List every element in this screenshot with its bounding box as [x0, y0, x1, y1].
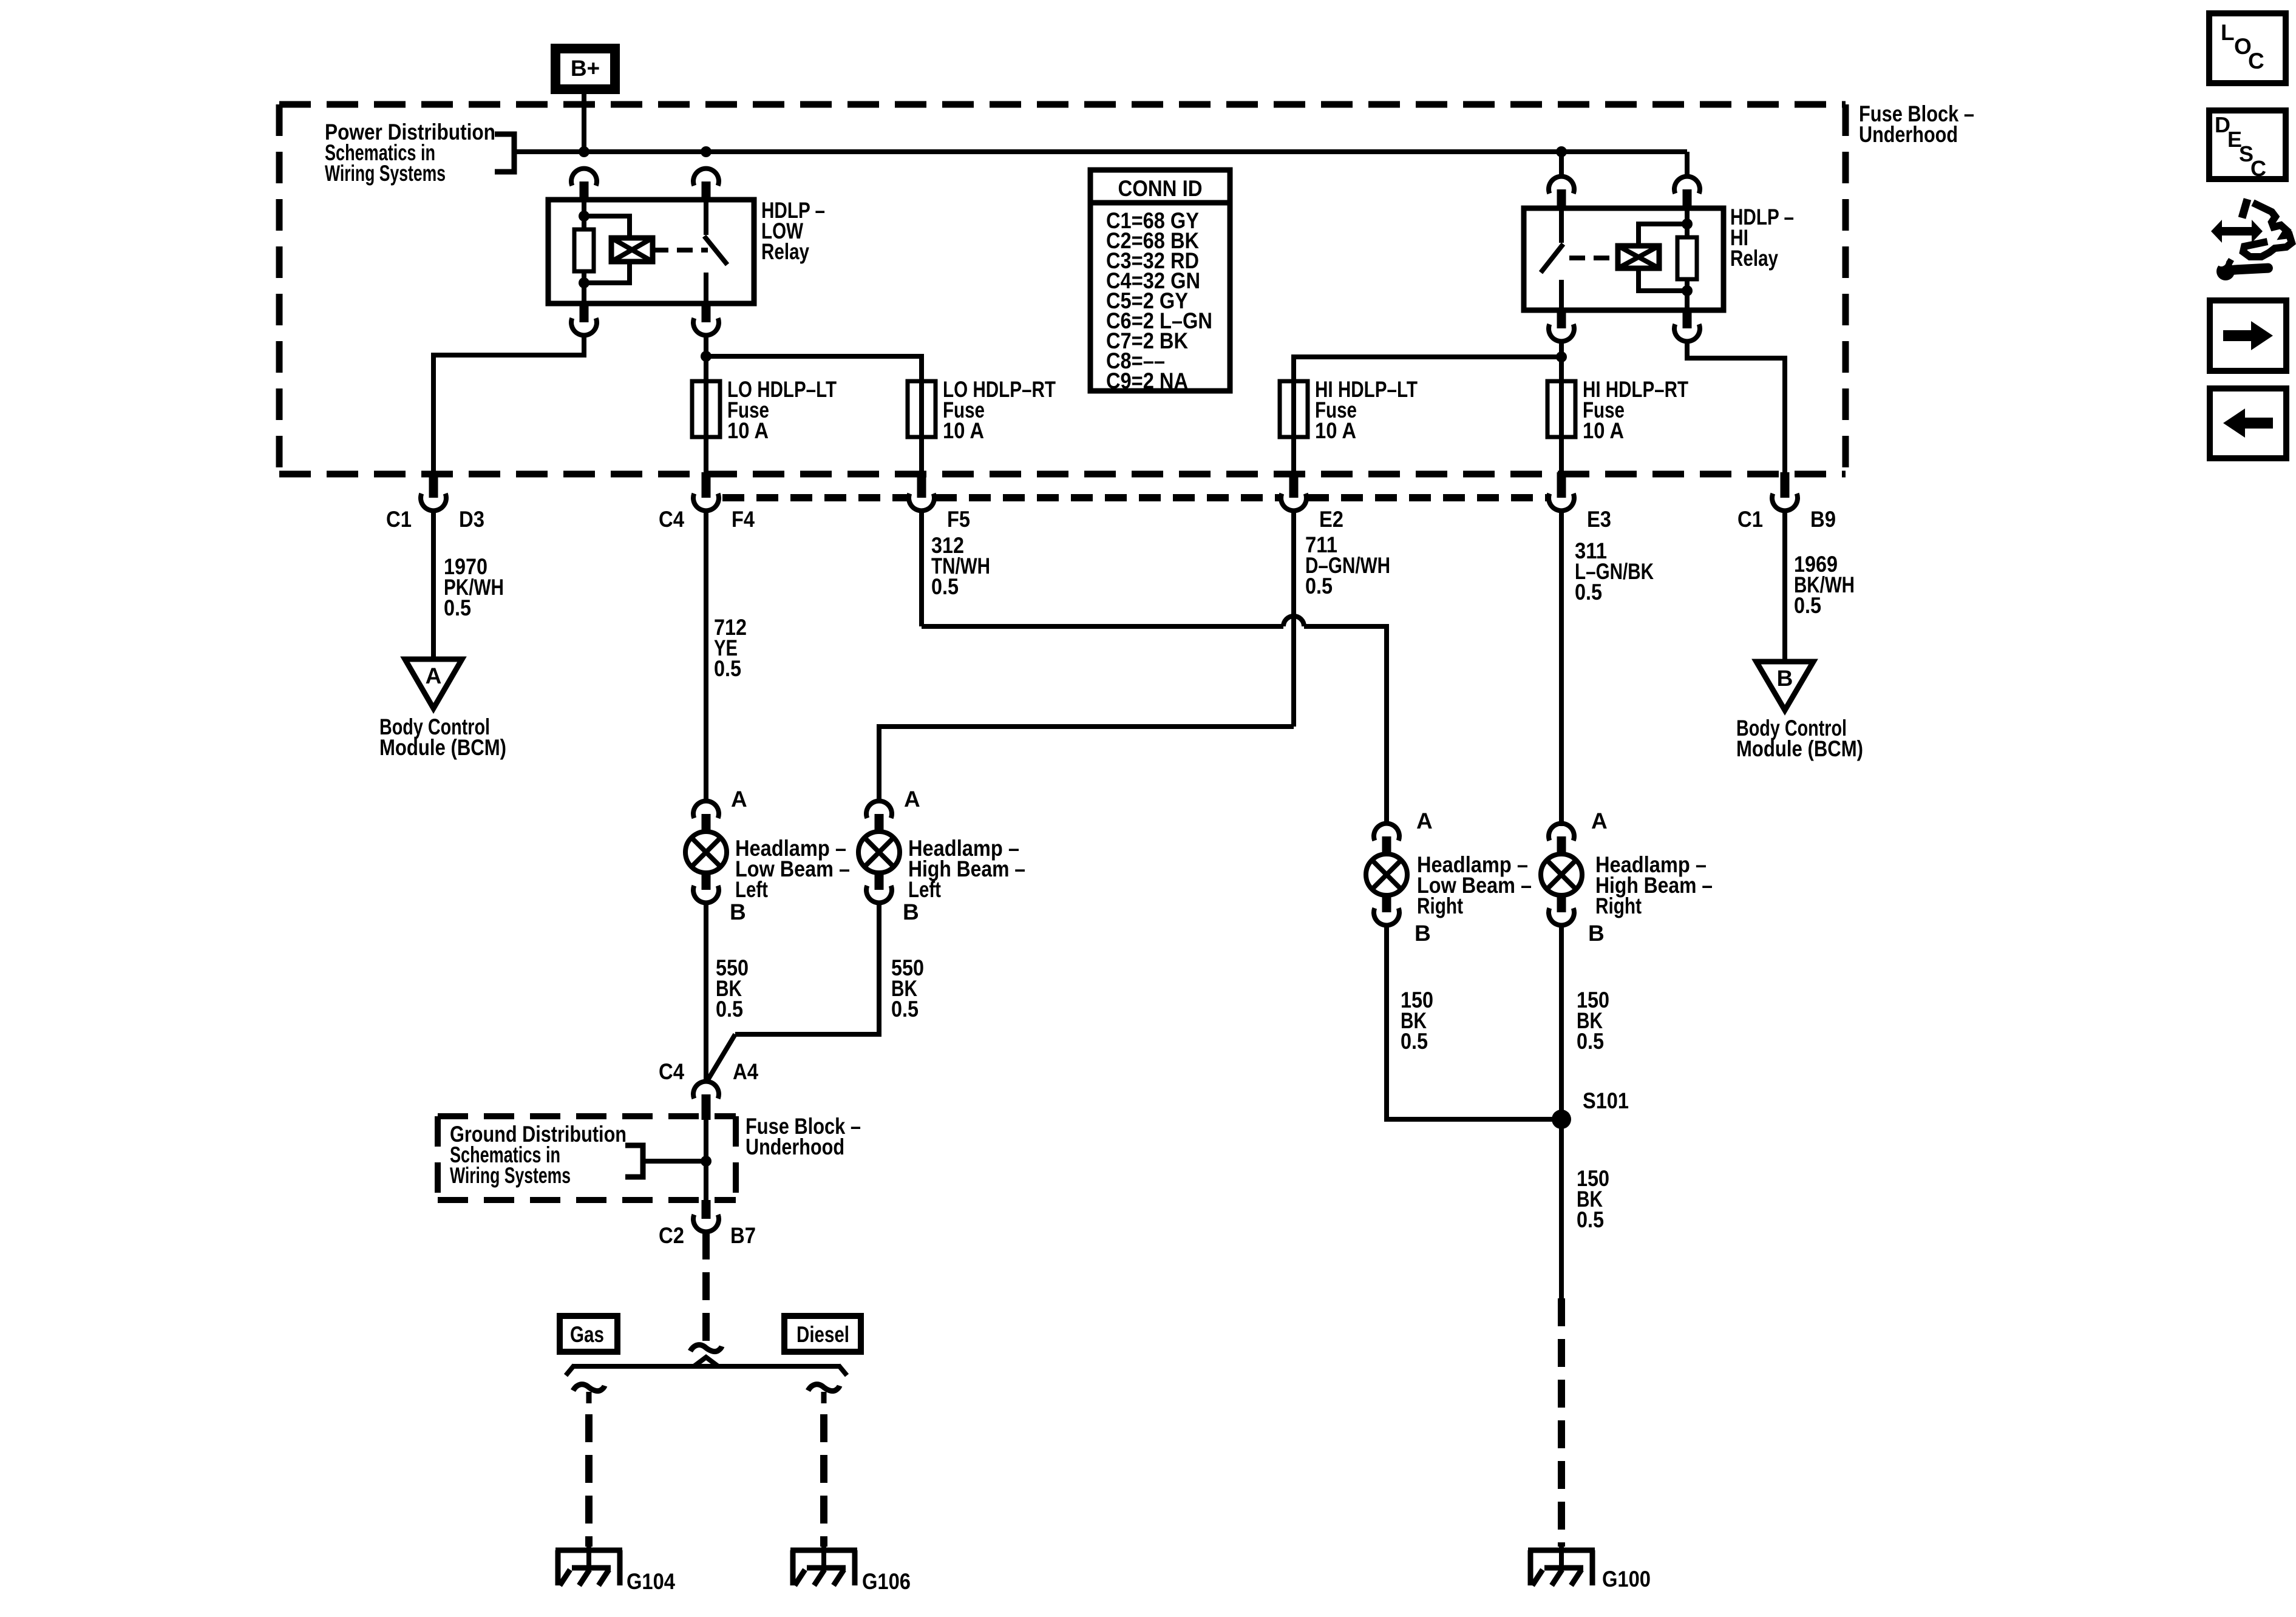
svg-text:B7: B7	[730, 1223, 756, 1248]
connector E3 at fuse block	[1557, 472, 1566, 498]
adjust/service icon (hand with wrench)	[2211, 220, 2263, 243]
wire to G104	[585, 1414, 593, 1547]
bracket to ground distribution	[625, 1145, 643, 1177]
wire HI switch to HI-RT fuse	[1559, 341, 1564, 381]
svg-text:Gas: Gas	[570, 1322, 604, 1347]
connector C1 D3 at fuse block	[429, 472, 438, 498]
svg-text:B9: B9	[1810, 507, 1836, 532]
next-page arrow box	[2210, 300, 2286, 371]
ground distribution fuse block dashed box	[438, 1113, 736, 1119]
svg-text:F5: F5	[947, 507, 970, 532]
wire 711 D-GN/WH 0.5	[1291, 510, 1296, 727]
node fuse feed junction HI	[1556, 351, 1567, 362]
fuse HI HDLP–RT 10 A	[1559, 381, 1564, 474]
svg-text:A: A	[1416, 808, 1433, 833]
svg-text:C9=2 NA: C9=2 NA	[1106, 368, 1188, 393]
lamp Headlamp Low Beam Left	[693, 801, 719, 818]
svg-text:10 A: 10 A	[1583, 418, 1624, 443]
split line gas/diesel	[694, 1357, 718, 1366]
connector E2 at fuse block	[1289, 472, 1299, 498]
wire 550 BK 0.5 low-left	[704, 903, 708, 1082]
actuator dashed link HI	[1569, 256, 1618, 260]
wire break symbol diesel branch	[808, 1385, 840, 1391]
svg-text:Wiring Systems: Wiring Systems	[325, 161, 446, 186]
wire LOW switch to LO-LT fuse	[704, 335, 708, 381]
svg-text:B: B	[1415, 921, 1431, 946]
svg-text:A: A	[904, 787, 920, 812]
svg-text:C: C	[2248, 49, 2264, 73]
svg-text:0.5: 0.5	[714, 656, 741, 681]
svg-text:Left: Left	[735, 877, 768, 902]
svg-text:C1: C1	[386, 507, 412, 532]
connector F5 at fuse block	[917, 472, 926, 498]
DESC nav box	[2209, 110, 2286, 179]
node bus/B+ junction	[579, 146, 589, 157]
wire to HI-LT fuse	[1294, 357, 1561, 381]
prev-page arrow box	[2210, 388, 2286, 458]
battery feed B+ box	[555, 49, 615, 89]
svg-text:0.5: 0.5	[444, 595, 471, 620]
svg-text:L: L	[2221, 20, 2235, 45]
wire 312 TN/WH 0.5	[919, 510, 924, 626]
fuse block underhood dashed box	[279, 101, 1846, 108]
svg-text:C4: C4	[659, 1059, 684, 1084]
wire 1969 BK/WH 0.5	[1782, 510, 1787, 662]
CONN ID table	[1090, 170, 1230, 391]
off-page triangle A to BCM	[405, 659, 462, 708]
svg-text:A: A	[1591, 808, 1608, 833]
actuator dashed link LOW	[653, 248, 708, 253]
svg-text:Module (BCM): Module (BCM)	[1736, 736, 1863, 761]
svg-text:0.5: 0.5	[1794, 593, 1821, 618]
wire coil loop bottom	[584, 262, 630, 283]
switch HI relay	[1559, 208, 1564, 243]
wire break symbol gas branch	[573, 1385, 605, 1391]
lamp Headlamp High Beam Left	[866, 801, 892, 818]
bracket to power distribution	[495, 134, 514, 172]
svg-text:0.5: 0.5	[1305, 574, 1333, 598]
lamp Headlamp High Beam Right	[1549, 824, 1574, 841]
wire B+ bus	[584, 149, 1687, 154]
svg-text:Relay: Relay	[1730, 246, 1778, 271]
connector HI relay coil pin top	[1674, 177, 1700, 194]
connector C4 A4	[693, 1082, 719, 1099]
svg-text:Right: Right	[1595, 893, 1642, 918]
connector C1 B9 at fuse block	[1781, 472, 1790, 498]
svg-text:G100: G100	[1602, 1567, 1651, 1592]
svg-text:Right: Right	[1417, 893, 1463, 918]
connector HI relay coil pin bottom	[1683, 310, 1692, 328]
node fuse feed junction LOW	[701, 351, 712, 362]
svg-text:C: C	[2250, 156, 2266, 181]
wire through ground dist box	[704, 1120, 708, 1200]
svg-text:C4: C4	[659, 507, 684, 532]
wire 1970 PK/WH 0.5	[431, 510, 436, 659]
svg-text:B: B	[1588, 921, 1605, 946]
fuse LO HDLP–LT 10 A	[704, 381, 708, 474]
svg-text:C2: C2	[659, 1223, 684, 1248]
wire B+ to bus	[582, 94, 586, 152]
relay HDLP-LOW box	[548, 200, 754, 303]
wire bus to HI relay switch pin	[1559, 152, 1564, 177]
svg-text:C1: C1	[1737, 507, 1763, 532]
svg-text:0.5: 0.5	[931, 574, 959, 599]
wire 150 BK 0.5 high-right	[1559, 925, 1564, 1298]
svg-text:10 A: 10 A	[727, 418, 769, 443]
connector C4 F4 at fuse block	[702, 472, 711, 498]
svg-text:Left: Left	[908, 877, 941, 902]
svg-text:B: B	[1777, 666, 1793, 691]
resistor HI relay	[1677, 237, 1697, 279]
svg-text:Wiring Systems: Wiring Systems	[450, 1163, 571, 1188]
fuse LO HDLP–RT 10 A	[919, 381, 924, 474]
wire bus corner to HI relay coil pin	[1685, 152, 1690, 177]
svg-text:Module (BCM): Module (BCM)	[379, 735, 506, 760]
connector C2 B7	[702, 1200, 711, 1219]
wire HI coil to B9	[1687, 341, 1785, 474]
wire to LO-RT fuse	[706, 356, 922, 381]
wire to G106	[820, 1414, 827, 1547]
wire coil loop top	[584, 216, 630, 238]
svg-text:D3: D3	[459, 507, 484, 532]
node ground dist junction	[701, 1156, 712, 1167]
svg-text:0.5: 0.5	[1577, 1029, 1604, 1054]
wire hop over 711 wire	[1283, 616, 1304, 626]
coil winding HI relay	[1618, 246, 1659, 268]
ground G100	[1559, 1543, 1564, 1569]
svg-text:0.5: 0.5	[1401, 1029, 1428, 1054]
coil winding LOW relay	[611, 238, 653, 262]
wire LOW coil to D3	[433, 335, 584, 474]
svg-text:B: B	[903, 900, 919, 924]
ground G104	[586, 1543, 591, 1569]
Diesel box	[784, 1316, 861, 1352]
splice S101	[1552, 1110, 1571, 1129]
connector LOW relay coil pin bottom	[580, 303, 589, 322]
svg-text:B+: B+	[571, 56, 600, 81]
svg-text:A: A	[731, 787, 747, 812]
connector LOW relay coil pin top	[571, 169, 597, 186]
svg-text:0.5: 0.5	[1575, 580, 1602, 605]
node bus/LOW-relay switch junction	[701, 146, 712, 157]
relay HDLP-HI box	[1524, 208, 1724, 310]
connector HI relay switch pin bottom	[1557, 310, 1566, 328]
svg-text:CONN ID: CONN ID	[1118, 176, 1203, 201]
ground G106	[821, 1543, 826, 1569]
off-page triangle B to BCM	[1756, 662, 1813, 710]
svg-text:0.5: 0.5	[716, 997, 743, 1022]
LOW relay coil circuit	[582, 200, 586, 229]
HI relay coil circuit	[1685, 208, 1690, 237]
connector LOW relay switch pin top	[693, 169, 719, 186]
LOC nav box	[2209, 13, 2286, 83]
connector row dashed line C4	[722, 494, 908, 501]
wire 550 BK 0.5 high-left	[735, 903, 879, 1034]
wire 311 L-GN/BK 0.5	[1559, 510, 1564, 826]
svg-text:A4: A4	[733, 1059, 758, 1084]
wire break symbol center	[690, 1345, 722, 1352]
wire bracket to bus	[514, 149, 584, 154]
svg-text:F4: F4	[732, 507, 755, 532]
fuse HI HDLP–LT 10 A	[1291, 381, 1296, 474]
wire coil loop bottom HI	[1639, 268, 1687, 291]
connector LOW relay switch pin bottom	[702, 303, 711, 322]
svg-text:E2: E2	[1319, 507, 1343, 532]
svg-text:Diesel: Diesel	[796, 1322, 849, 1347]
svg-text:G106: G106	[862, 1569, 911, 1594]
svg-text:10 A: 10 A	[1315, 418, 1356, 443]
svg-text:G104: G104	[627, 1569, 675, 1594]
svg-text:10 A: 10 A	[943, 418, 984, 443]
svg-text:B: B	[730, 900, 746, 924]
wire C2-B7 dashed down	[702, 1232, 710, 1341]
node bus/HI-relay switch junction	[1556, 146, 1567, 157]
lamp Headlamp Low Beam Right	[1374, 824, 1399, 841]
wire 150 BK 0.5 low-right	[1387, 925, 1561, 1119]
connector HI relay switch pin top	[1549, 177, 1574, 194]
wire coil loop top HI	[1639, 224, 1687, 246]
Gas box	[560, 1316, 617, 1352]
svg-text:0.5: 0.5	[891, 997, 919, 1022]
switch LOW relay	[704, 200, 708, 235]
svg-text:0.5: 0.5	[1577, 1207, 1604, 1232]
resistor LOW relay	[574, 229, 594, 271]
svg-text:E3: E3	[1587, 507, 1611, 532]
svg-text:S101: S101	[1583, 1088, 1629, 1113]
svg-text:A: A	[426, 663, 442, 688]
svg-text:Underhood: Underhood	[746, 1134, 844, 1159]
svg-text:Underhood: Underhood	[1859, 122, 1958, 147]
wire 712 YE 0.5	[704, 510, 708, 801]
svg-text:Relay: Relay	[761, 239, 809, 264]
